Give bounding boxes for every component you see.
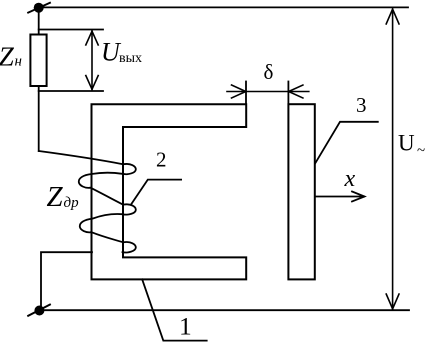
arrow x (displacement direction) — [316, 192, 365, 202]
svg-text:н: н — [15, 53, 22, 69]
resistor Zн — [30, 35, 46, 87]
plate 3 (movable armature) — [288, 104, 314, 279]
wire Uvyx bottom reference line — [39, 90, 103, 92]
svg-text:Z: Z — [0, 40, 15, 71]
dimension arrow Uvyx (double-headed vertical) — [86, 31, 98, 90]
svg-text:δ: δ — [264, 60, 274, 84]
svg-text:U: U — [398, 131, 415, 156]
wire slash through top node — [28, 3, 50, 13]
wire from resistor down to coil — [38, 86, 40, 151]
core 1 (C-shaped magnetic core) — [92, 104, 247, 279]
wire top rail — [39, 6, 408, 8]
svg-text:x: x — [344, 166, 356, 192]
svg-text:~: ~ — [417, 143, 425, 159]
dimension delta extension line (plate side) — [287, 82, 289, 105]
dimension delta extension line (core side) — [245, 82, 247, 105]
wire bottom rail — [39, 309, 409, 311]
svg-text:вых: вых — [119, 51, 142, 66]
svg-text:Z: Z — [47, 181, 64, 213]
svg-text:3: 3 — [356, 93, 367, 117]
wire from coil bottom to left and down — [41, 252, 92, 310]
dimension arrow delta right (points left) — [246, 85, 309, 98]
wire Uvyx top reference line — [39, 29, 103, 31]
wire slash through bottom node — [28, 305, 50, 316]
coil 2 (winding on left leg, Zdr) — [39, 151, 136, 252]
svg-text:1: 1 — [179, 311, 192, 340]
node bottom junction dot — [34, 306, 44, 316]
leader line for label 2 — [131, 180, 181, 205]
leader line for label 3 — [315, 122, 378, 164]
svg-text:2: 2 — [156, 148, 167, 172]
leader line for label 1 — [142, 279, 207, 340]
dimension arrow delta left (points right) — [227, 85, 246, 98]
wire from top node down to resistor — [38, 8, 40, 35]
svg-text:др: др — [64, 195, 80, 211]
dimension arrow U~ (double-headed vertical at right) — [386, 9, 399, 309]
node top junction dot — [34, 3, 44, 13]
